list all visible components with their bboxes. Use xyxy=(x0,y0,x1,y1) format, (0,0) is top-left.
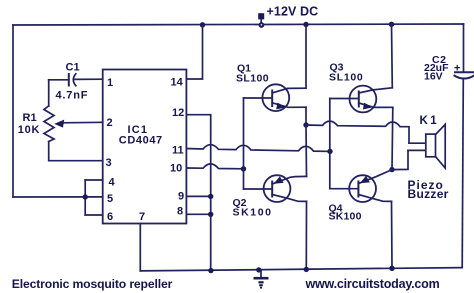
wire pin 4 stub xyxy=(85,179,103,181)
wire Q1 collector to rail xyxy=(305,25,307,89)
svg-text:14: 14 xyxy=(171,77,184,89)
wire pins 4-6 bracket xyxy=(84,180,86,215)
wiper arrowhead xyxy=(54,120,64,128)
transistor Q3 (NPN SL100) xyxy=(350,86,377,113)
svg-text:CD4047: CD4047 xyxy=(119,135,163,147)
svg-text:6: 6 xyxy=(107,211,113,223)
wire corner down to R1 top xyxy=(48,80,50,106)
node junction ground leg to rail xyxy=(208,268,213,273)
resistor R1 (potentiometer) xyxy=(44,106,54,142)
svg-text:SL100: SL100 xyxy=(236,73,269,85)
transistor Q2 (PNP SK100) xyxy=(264,175,291,202)
svg-text:+12V DC: +12V DC xyxy=(267,4,319,18)
wire right border top (to C2) xyxy=(463,24,465,72)
wire base to Q1 xyxy=(244,97,272,99)
svg-text:4.7nF: 4.7nF xyxy=(56,90,89,102)
node junction Q2 collector/rail xyxy=(304,267,309,272)
wire +12V top rail xyxy=(13,24,464,25)
svg-text:5: 5 xyxy=(107,193,113,205)
wire R1 bottom to pin 3 xyxy=(49,142,103,161)
power terminal +12V DC xyxy=(258,13,264,19)
svg-text:C1: C1 xyxy=(66,62,80,74)
node junction pin9 xyxy=(208,194,213,199)
svg-text:R1: R1 xyxy=(23,112,37,124)
wire Q3 emitter down to node B xyxy=(391,107,394,169)
wire base to Q4 xyxy=(330,188,357,190)
svg-text:SL100: SL100 xyxy=(329,72,363,84)
node junction pin11/base line xyxy=(327,149,332,154)
wire pin 9 stub xyxy=(186,195,210,197)
svg-text:SK100: SK100 xyxy=(233,207,273,219)
svg-text:10: 10 xyxy=(170,163,182,175)
svg-text:4: 4 xyxy=(109,177,116,189)
wire node A to buzzer top (hops over 2 wires) xyxy=(306,121,409,143)
svg-text:2: 2 xyxy=(107,117,113,129)
capacitor C1 xyxy=(68,74,70,86)
node junction Q4 collector/rail xyxy=(389,266,394,271)
wire C1 left to corner xyxy=(49,79,68,81)
svg-text:10K: 10K xyxy=(18,124,41,136)
node junction pin10/base line xyxy=(241,166,246,171)
node junction output B xyxy=(389,167,394,172)
wire base to Q3 xyxy=(330,98,358,100)
svg-text:3: 3 xyxy=(106,157,112,169)
svg-text:16V: 16V xyxy=(424,71,443,83)
svg-text:+: + xyxy=(454,63,460,75)
wire bottom ground rail xyxy=(140,268,462,271)
wire Q1/Q2 base line vertical xyxy=(243,98,245,189)
wire pin 5 from +12V left border xyxy=(13,196,103,198)
capacitor C2 (electrolytic) xyxy=(455,71,474,73)
wire pin 7 to ground rail xyxy=(139,224,141,271)
svg-text:SK100: SK100 xyxy=(329,211,362,223)
node junction Q1 collector to rail xyxy=(303,22,308,27)
wire C1 right to pin 1 xyxy=(75,78,103,80)
wire pin 6 stub xyxy=(85,214,103,216)
wire pin 11 to Q3/Q4 base line (hops over 3 wires) xyxy=(186,145,330,152)
svg-text:K1: K1 xyxy=(420,115,440,127)
wire pin 8 stub xyxy=(186,213,210,215)
transistor Q1 (NPN SL100) xyxy=(262,84,289,111)
wire pin 10 to Q1/Q2 base line (hop over ground leg) xyxy=(186,164,243,169)
svg-text:11: 11 xyxy=(172,145,184,157)
wire base to Q2 xyxy=(244,188,272,190)
svg-text:9: 9 xyxy=(178,191,184,203)
wire right border bottom (C2 to ground rail) xyxy=(462,79,463,268)
wire Q4 collector to ground rail xyxy=(391,201,394,268)
node junction pin8 xyxy=(208,212,213,217)
node junction pin5/bracket xyxy=(83,194,88,199)
wire Q2 collector to ground rail xyxy=(305,201,307,269)
wire pin 12 right then down (ground leg) xyxy=(186,115,210,271)
svg-text:www.circuitstoday.com: www.circuitstoday.com xyxy=(305,277,440,291)
node junction Q3 collector to rail xyxy=(389,22,394,27)
svg-text:1: 1 xyxy=(107,77,113,89)
svg-text:8: 8 xyxy=(177,206,183,218)
wire R1 wiper to pin 2 xyxy=(62,121,103,124)
wire pin 14 to +12V rail xyxy=(186,25,202,79)
ground symbol xyxy=(256,267,261,272)
svg-text:12: 12 xyxy=(172,107,184,119)
svg-text:Electronic mosquito repeller: Electronic mosquito repeller xyxy=(12,277,173,291)
wire Q3 collector to rail xyxy=(391,24,394,87)
node junction pin14 to rail xyxy=(200,22,205,27)
wire Q3/Q4 base line vertical xyxy=(329,99,331,189)
IC U1 box xyxy=(103,70,187,224)
node junction output A xyxy=(303,122,308,127)
transistor Q4 (PNP SK100) xyxy=(349,175,376,202)
wire node A down to Q2 emitter xyxy=(305,125,308,176)
wire node B to buzzer bottom xyxy=(392,150,408,169)
svg-text:Buzzer: Buzzer xyxy=(408,187,449,201)
wire left +12V border xyxy=(12,25,14,197)
svg-text:7: 7 xyxy=(139,211,145,223)
wire Q1 emitter down to node xyxy=(305,107,307,125)
buzzer K1 xyxy=(409,142,426,144)
